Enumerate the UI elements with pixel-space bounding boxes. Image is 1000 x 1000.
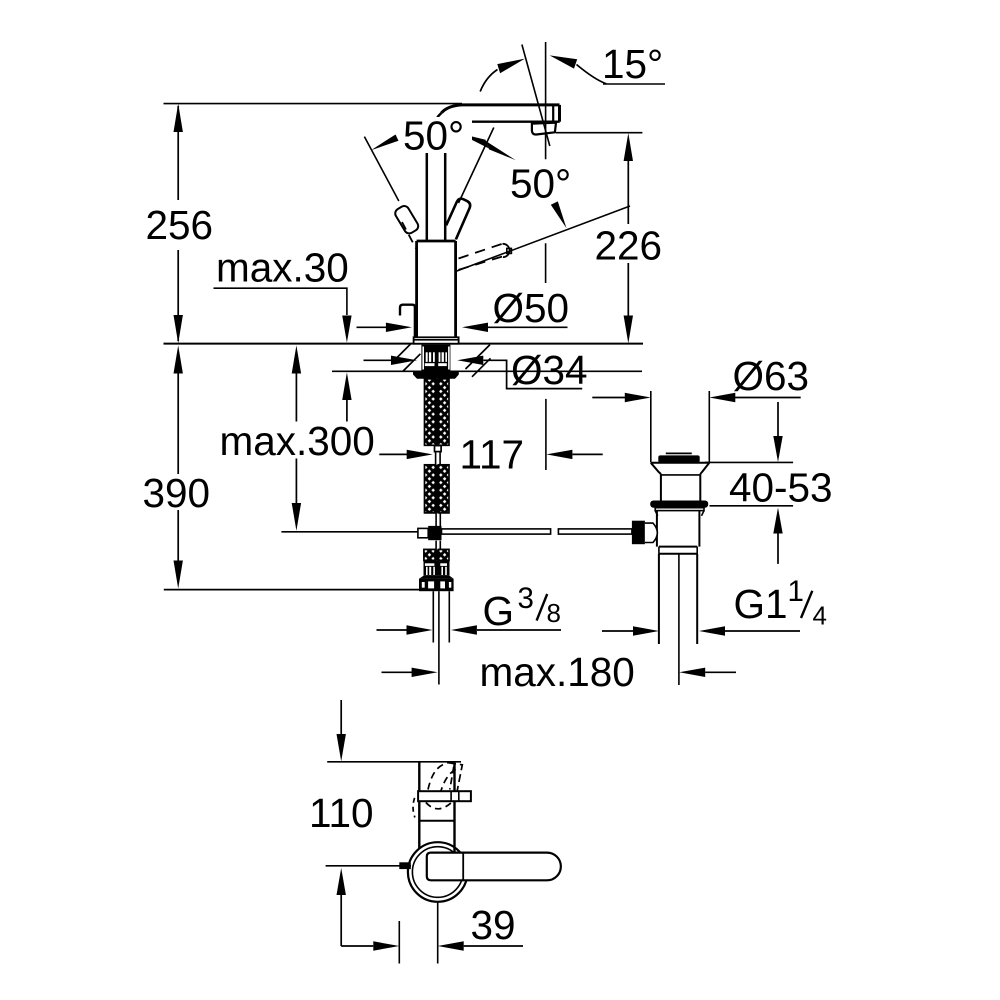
svg-text:226: 226 bbox=[595, 223, 663, 269]
bottom view waist line bbox=[419, 820, 454, 822]
max.300 bottom reference / pull-rod thin line bbox=[281, 531, 418, 533]
drain body bottom rings bbox=[659, 547, 697, 554]
drain cap bbox=[658, 455, 699, 462]
15-degree right arrowhead bbox=[550, 55, 578, 68]
left lever dashed connector bbox=[402, 222, 416, 249]
pop-up rod horizontal bar right segment bbox=[558, 529, 632, 534]
dimension 390 arrowheads bbox=[174, 345, 183, 588]
svg-text:110: 110 bbox=[309, 790, 374, 836]
dimension 226 line bbox=[627, 160, 629, 316]
neck left shoulder curve (under label) bbox=[428, 113, 442, 146]
bottom view rod stub bbox=[399, 862, 411, 869]
faucet centre line below bbox=[438, 591, 440, 684]
pop-up rod vertical stubs bbox=[436, 513, 440, 550]
counter hole shank bbox=[421, 345, 450, 372]
15-degree right arc bbox=[577, 65, 607, 84]
right lever (solid) bbox=[446, 199, 470, 240]
label 50 degrees upper bbox=[400, 117, 472, 153]
second 50-degree ray bbox=[456, 206, 631, 272]
svg-text:15°: 15° bbox=[602, 41, 663, 87]
bottom view lever capsule bbox=[427, 853, 561, 881]
label 117 bbox=[456, 436, 527, 472]
spout end box bbox=[558, 105, 561, 122]
max.30 upper arrowhead bbox=[342, 316, 351, 343]
dimension D34 line bbox=[364, 360, 583, 388]
drain flange top bbox=[651, 462, 710, 464]
faucet body outline bbox=[417, 241, 456, 338]
svg-text:max.30: max.30 bbox=[216, 244, 349, 290]
max.30 lower arrowhead and tail bbox=[342, 372, 351, 400]
deck hatch right bbox=[466, 345, 491, 377]
max.30 leader bbox=[214, 288, 347, 315]
side lever end cap bbox=[503, 244, 510, 257]
svg-text:50°: 50° bbox=[403, 112, 464, 158]
side lever dashed lines bbox=[459, 244, 504, 270]
svg-text:39: 39 bbox=[471, 902, 516, 948]
deck bottom line bbox=[332, 370, 642, 372]
dimension 226 arrowheads bbox=[624, 133, 633, 343]
drain side knob bbox=[632, 521, 645, 545]
svg-text:50°: 50° bbox=[510, 160, 571, 206]
drain washer bbox=[655, 508, 704, 511]
drain funnel bbox=[651, 463, 710, 475]
bottom view dashed spout sketch bbox=[428, 763, 448, 790]
dimension 110 bbox=[340, 700, 342, 734]
svg-text:40-53: 40-53 bbox=[729, 464, 833, 510]
pop-up rod coupler bbox=[418, 528, 428, 537]
pull-rod hook bbox=[400, 305, 415, 338]
dimension 39 extension lines bbox=[399, 902, 437, 964]
deck hatch left bbox=[394, 344, 421, 371]
bottom view lower reference line bbox=[326, 865, 411, 867]
left lever rotated (outline) bbox=[393, 204, 420, 235]
connection nut stack bbox=[424, 560, 450, 566]
svg-text:3: 3 bbox=[518, 582, 534, 615]
upper hose pair bbox=[425, 379, 436, 446]
vertical plumb line bbox=[545, 42, 547, 283]
svg-text:256: 256 bbox=[146, 202, 214, 248]
dimension 117 right arrow and extension bbox=[545, 399, 547, 470]
svg-text:Ø34: Ø34 bbox=[511, 347, 588, 393]
middle 50-degree ray bbox=[459, 128, 494, 204]
svg-text:G1: G1 bbox=[734, 581, 788, 627]
390 bottom reference line bbox=[164, 589, 419, 591]
svg-text:8: 8 bbox=[547, 598, 561, 628]
lower hose pair bbox=[425, 465, 436, 513]
40-53 top reference line bbox=[705, 461, 793, 463]
15-degree left arrowhead bbox=[497, 59, 525, 74]
hose break connector bbox=[435, 446, 442, 452]
spout outlet piece bbox=[532, 123, 556, 135]
neck right shoulder (under label) bbox=[447, 122, 472, 152]
drain tailpipe bbox=[659, 554, 697, 644]
G3/8 connector tails bbox=[433, 591, 449, 642]
lower braid couplings bbox=[424, 549, 435, 560]
dimension 40-53 arrows bbox=[777, 402, 779, 436]
svg-text:390: 390 bbox=[143, 470, 211, 516]
label 226 bbox=[591, 224, 664, 263]
dimension max.300 line bbox=[295, 373, 297, 503]
dimension 117 left arrow bbox=[379, 453, 408, 455]
left 50-degree arrowhead bbox=[371, 135, 399, 151]
svg-text:Ø50: Ø50 bbox=[493, 285, 570, 331]
dimension 256 arrowheads bbox=[174, 104, 183, 344]
drain extension lines bbox=[651, 391, 710, 462]
pop-up rod horizontal bar left segment bbox=[442, 529, 551, 534]
svg-text:Ø63: Ø63 bbox=[733, 353, 810, 399]
dimension max.300 arrowheads bbox=[292, 345, 301, 530]
256 top reference line bbox=[164, 103, 463, 105]
bottom view lever bar bbox=[418, 791, 471, 801]
drain upper body bbox=[661, 475, 700, 501]
bottom view escutcheon circles bbox=[408, 842, 468, 902]
side lever notch bbox=[507, 248, 512, 253]
dimension D34 arrowheads bbox=[391, 356, 483, 365]
svg-text:G: G bbox=[483, 588, 515, 634]
drain seal ring bbox=[650, 501, 708, 508]
dimension 39 bbox=[341, 945, 523, 947]
dimension 256 line bbox=[177, 106, 179, 341]
left 50-degree extent ray bbox=[364, 137, 398, 201]
svg-text:max.300: max.300 bbox=[220, 418, 375, 464]
label max.300 bbox=[216, 422, 372, 459]
dimension D63 bbox=[592, 397, 800, 399]
deck top line bbox=[164, 343, 644, 345]
bottom view top reference line bbox=[327, 761, 461, 763]
faucet neck lines bbox=[427, 153, 445, 240]
label 256 bbox=[142, 206, 214, 243]
50-degree bowtie arrowheads bbox=[459, 133, 489, 148]
bottom view body sides bbox=[419, 762, 454, 855]
svg-text:117: 117 bbox=[460, 432, 525, 478]
label 50 degrees lower bbox=[507, 164, 576, 200]
226 reference line at outlet bbox=[556, 132, 642, 134]
base flange bbox=[414, 337, 459, 343]
svg-text:max.180: max.180 bbox=[480, 649, 635, 695]
15-degree label leader bbox=[603, 83, 665, 85]
spout top curve bbox=[442, 105, 560, 113]
dimension D50 arrowheads bbox=[386, 323, 488, 332]
under-deck washer bbox=[413, 372, 459, 379]
dimension max.180 bbox=[382, 671, 737, 673]
second 50-degree arrowhead bbox=[551, 201, 567, 228]
svg-text:1: 1 bbox=[788, 575, 804, 608]
drain lower body bbox=[657, 511, 700, 547]
15-degree tilted line bbox=[522, 45, 550, 147]
40-53 lower leader bbox=[710, 505, 794, 507]
dimension G3/8 bbox=[377, 629, 562, 631]
dimension 390 line bbox=[177, 373, 179, 561]
spout underside bbox=[472, 120, 560, 122]
dimension G1 1/4 bbox=[602, 630, 800, 632]
svg-text:4: 4 bbox=[813, 601, 827, 631]
dimension D50 line bbox=[357, 326, 568, 328]
drain centre line bbox=[678, 554, 680, 685]
15-degree left arc bbox=[480, 70, 497, 92]
